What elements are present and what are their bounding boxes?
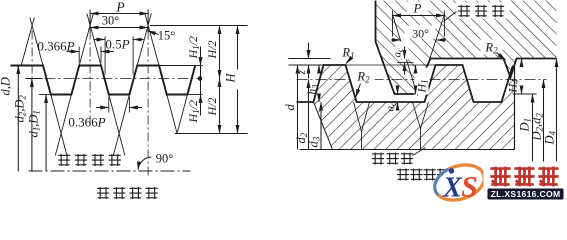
construction V below root groove 2 (413, 102, 421, 129)
fundamental triangle construction lines top apex 1 (21, 18, 34, 66)
svg-text:0.366P: 0.366P (37, 39, 74, 54)
dimension ac upper (404, 47, 406, 59)
pitch extension line left (25, 78, 42, 80)
dimension 0.37P root (108, 97, 110, 113)
fundamental triangle construction lines bottom apex 2 (109, 95, 125, 156)
thread axis line (29, 170, 191, 172)
dimension D1 (532, 94, 534, 163)
dimension 30 degrees (90, 27, 148, 29)
dimension H1 right figure (415, 65, 417, 71)
svg-text:30°: 30° (412, 27, 429, 41)
dimension H/2 pair (219, 26, 221, 61)
junction dot pitch line (198, 76, 203, 81)
apex top extension line (150, 25, 248, 27)
dimension d1,D1 (45, 95, 47, 172)
dimension 0.5P (104, 37, 106, 75)
dimension d3 left (320, 102, 322, 150)
extension lines P dimension (89, 10, 91, 31)
internal thread mass hatching (376, 1, 557, 95)
leader R1 (346, 58, 352, 64)
label thread axis (luo wen zhou xian) (58, 154, 70, 166)
svg-text:X: X (442, 173, 463, 204)
caption design profile (she ji ya xing) (397, 169, 409, 181)
external mass bottom edge (300, 149, 515, 151)
extension line D1 (513, 93, 537, 95)
caption basic profile (ji ben ya xing) (97, 187, 109, 199)
90 degree angle arc (138, 157, 151, 170)
leader R2 internal root (497, 53, 506, 61)
watermark text zi liao wang (484, 162, 566, 189)
root extension line right (187, 94, 202, 96)
apex bottom extension line (175, 133, 248, 135)
svg-text:90°: 90° (156, 152, 174, 166)
dimension d2 left (308, 80, 310, 150)
dimension ac lower (397, 86, 399, 95)
dimension D2,d2 (543, 80, 545, 163)
watermark domain box (488, 189, 564, 200)
extension line d3 (297, 101, 314, 103)
external mass right edge (514, 67, 516, 150)
extension lines for z clearance (289, 58, 331, 60)
construction V below root groove 1 (354, 102, 362, 132)
label external thread (wai luo wen) (370, 151, 415, 167)
external thread mass hatching (314, 65, 515, 150)
svg-text:H/2: H/2 (205, 98, 219, 117)
external mass left cut edge (314, 102, 333, 150)
centerline tooth 3 / 90deg reference (147, 31, 149, 176)
construction line at crest level through groove (346, 64, 435, 66)
dimension h3 (318, 65, 320, 73)
fundamental triangle construction lines bottom apex 1 (51, 95, 67, 156)
dimension 30 degrees right figure (391, 39, 401, 41)
dimension 0.37P crest (78, 47, 80, 63)
dimension P right figure (393, 15, 445, 17)
svg-text:P: P (115, 0, 124, 15)
pitch line right figure (297, 79, 547, 81)
fundamental triangle construction lines top apex 2 (79, 14, 93, 66)
svg-text:30°: 30° (102, 14, 120, 28)
leader 15 degrees (147, 31, 158, 35)
external thread profile (297, 65, 515, 102)
root extension line left (39, 94, 51, 96)
construction V lines in internal tooth (30 deg) (393, 15, 418, 96)
fundamental triangle construction lines top apex 3 (137, 14, 151, 66)
leader R2 external root (356, 84, 361, 98)
svg-text:ZL.XS1616.COM: ZL.XS1616.COM (491, 189, 561, 199)
watermark logo swirl (430, 159, 489, 206)
dimension H (237, 26, 239, 70)
svg-text:P: P (413, 1, 422, 16)
dimension H4 (521, 59, 523, 67)
centerline tooth 1 (31, 31, 33, 101)
dimension P top (90, 13, 148, 15)
dimension D4 (556, 59, 558, 163)
internal thread profile (376, 1, 557, 95)
svg-text:d,D: d,D (0, 77, 13, 95)
label halos on hatching (407, 2, 429, 15)
dimension d (297, 65, 299, 150)
svg-text:0.5P: 0.5P (105, 37, 129, 52)
svg-text:15°: 15° (158, 29, 176, 43)
label internal thread (nei luo wen) (456, 3, 510, 19)
pitch line (25, 78, 198, 80)
svg-text:d: d (283, 104, 297, 111)
dimension d,D (17, 66, 19, 172)
svg-text:S: S (461, 171, 478, 204)
svg-text:H: H (224, 73, 238, 84)
thread profile outline (basic profile) (11, 66, 196, 95)
svg-text:H/2: H/2 (205, 41, 219, 60)
dimension H1/2 pair (200, 47, 202, 116)
centerline tooth 2 (89, 31, 91, 123)
dimension d2,D2 (31, 79, 33, 172)
crest extension line right (159, 65, 203, 67)
dimension z (308, 43, 310, 59)
svg-text:0.366P: 0.366P (68, 115, 105, 130)
fundamental triangle construction lines bottom apex 3 (167, 95, 177, 134)
